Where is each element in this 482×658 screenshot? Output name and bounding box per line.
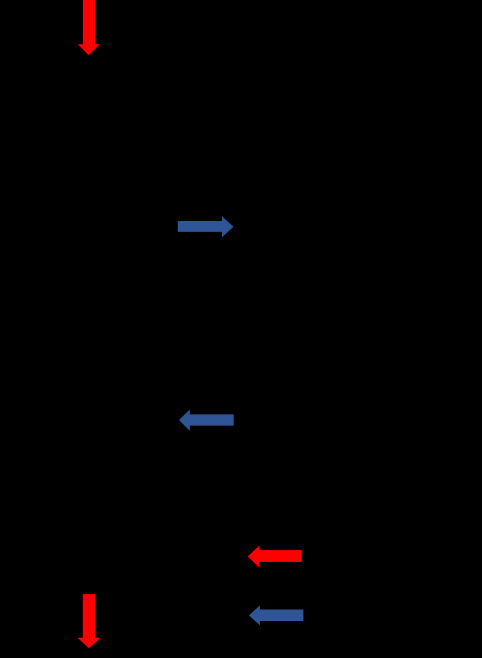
arrow A3: blue left arrow, middle lower	[179, 410, 234, 432]
arrow A6: red down arrow, bottom	[77, 594, 100, 648]
arrow A4: red left arrow	[248, 546, 302, 568]
arrow A5: blue left arrow, bottom	[249, 605, 304, 625]
arrow A2: blue right arrow, middle upper	[178, 216, 234, 237]
arrow A1: red down arrow, top	[78, 0, 100, 55]
